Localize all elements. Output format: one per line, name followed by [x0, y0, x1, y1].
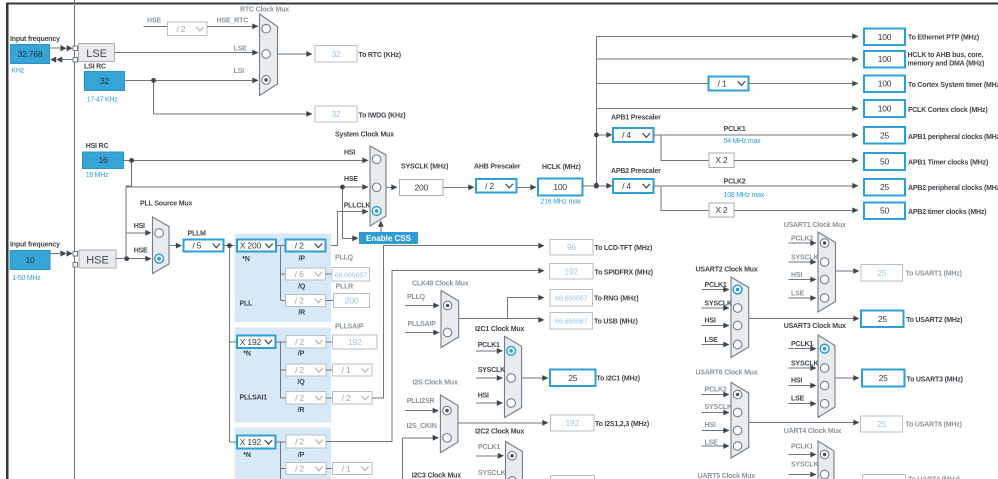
- svg-text:HSE_RTC: HSE_RTC: [217, 18, 249, 25]
- svg-text:USART3 Clock Mux: USART3 Clock Mux: [784, 323, 846, 330]
- svg-text:25: 25: [877, 419, 887, 429]
- svg-text:/ 6: / 6: [295, 269, 304, 279]
- svg-text:PCLK1: PCLK1: [478, 444, 500, 451]
- svg-text:HSE: HSE: [134, 248, 148, 255]
- svg-text:FCLK Cortex clock (MHz): FCLK Cortex clock (MHz): [908, 107, 987, 114]
- svg-text:/Q: /Q: [298, 284, 306, 291]
- svg-text:HSE: HSE: [344, 176, 358, 183]
- svg-text:PLLSAI1: PLLSAI1: [240, 395, 268, 402]
- svg-text:memory and DMA (MHz): memory and DMA (MHz): [908, 61, 985, 68]
- svg-text:PLL: PLL: [240, 301, 254, 308]
- svg-text:100: 100: [878, 79, 892, 89]
- svg-text:32: 32: [331, 109, 341, 119]
- svg-text:/ 2: / 2: [485, 181, 494, 191]
- svg-text:HSE: HSE: [86, 255, 109, 267]
- svg-text:To USART2 (MHz): To USART2 (MHz): [906, 317, 962, 324]
- svg-text:10: 10: [25, 255, 35, 265]
- svg-text:PLLQ: PLLQ: [335, 255, 354, 262]
- svg-text:HSI: HSI: [134, 223, 145, 230]
- svg-text:/ 2: / 2: [176, 24, 185, 34]
- svg-text:SYSCLK: SYSCLK: [791, 462, 818, 469]
- svg-text:HSI: HSI: [791, 272, 802, 279]
- svg-text:*N: *N: [243, 351, 251, 358]
- svg-text:KHz: KHz: [12, 68, 25, 75]
- svg-text:/R: /R: [298, 407, 305, 414]
- svg-text:LSE: LSE: [86, 48, 107, 60]
- svg-text:/P: /P: [298, 452, 305, 459]
- svg-text:/ 2: / 2: [295, 337, 304, 347]
- svg-text:To IWDG (KHz): To IWDG (KHz): [359, 112, 406, 119]
- svg-text:HSE: HSE: [147, 18, 161, 25]
- svg-text:SYSCLK (MHz): SYSCLK (MHz): [401, 164, 448, 171]
- svg-text:200: 200: [345, 296, 359, 306]
- svg-text:PLL Source Mux: PLL Source Mux: [140, 201, 192, 208]
- svg-text:Input frequency: Input frequency: [10, 36, 60, 43]
- svg-text:/ 2: / 2: [295, 241, 304, 251]
- svg-text:192: 192: [565, 418, 579, 428]
- svg-text:LSE: LSE: [791, 396, 805, 403]
- svg-text:To LCD-TFT (MHz): To LCD-TFT (MHz): [595, 245, 653, 252]
- svg-text:PCLK1: PCLK1: [791, 444, 813, 451]
- svg-text:HSI: HSI: [791, 378, 802, 385]
- svg-text:LSE: LSE: [791, 291, 805, 298]
- svg-text:100: 100: [878, 104, 892, 114]
- svg-text:100: 100: [553, 182, 567, 192]
- svg-text:66.666667: 66.666667: [555, 294, 587, 303]
- svg-text:To USB (MHz): To USB (MHz): [594, 318, 638, 325]
- svg-text:PLLSAIP: PLLSAIP: [408, 321, 437, 328]
- svg-text:LSE: LSE: [705, 440, 719, 447]
- svg-text:1-50 MHz: 1-50 MHz: [12, 275, 41, 282]
- svg-text:32.768: 32.768: [18, 49, 43, 59]
- svg-text:25: 25: [880, 130, 890, 140]
- svg-text:X 2: X 2: [715, 205, 728, 215]
- svg-text:APB2 timer clocks (MHz): APB2 timer clocks (MHz): [908, 209, 986, 216]
- svg-text:To Cortex System timer (MHz): To Cortex System timer (MHz): [908, 82, 998, 89]
- svg-text:/ 5: / 5: [192, 241, 201, 251]
- svg-text:PCLK1: PCLK1: [705, 282, 727, 289]
- svg-text:/P: /P: [299, 256, 306, 263]
- svg-text:HSI: HSI: [344, 150, 355, 157]
- svg-text:/ 4: / 4: [622, 181, 631, 191]
- svg-text:To USART3 (MHz): To USART3 (MHz): [907, 377, 963, 384]
- svg-text:200: 200: [414, 183, 428, 193]
- svg-text:APB1 Prescaler: APB1 Prescaler: [611, 114, 661, 121]
- svg-text:To RTC (KHz): To RTC (KHz): [359, 52, 401, 59]
- svg-text:/ 2: / 2: [295, 464, 304, 474]
- svg-text:*N: *N: [243, 452, 251, 459]
- svg-text:USART2 Clock Mux: USART2 Clock Mux: [696, 267, 758, 274]
- svg-text:/ 2: / 2: [295, 365, 304, 375]
- svg-text:SYSCLK: SYSCLK: [478, 367, 505, 374]
- svg-text:I2C1 Clock Mux: I2C1 Clock Mux: [475, 326, 525, 333]
- svg-text:To SPIDFRX (MHz): To SPIDFRX (MHz): [595, 270, 653, 277]
- svg-text:96: 96: [567, 242, 577, 252]
- svg-text:UART5 Clock Mux: UART5 Clock Mux: [698, 473, 756, 479]
- svg-text:PCLK1: PCLK1: [478, 342, 500, 349]
- svg-text:UART4 Clock Mux: UART4 Clock Mux: [784, 428, 842, 435]
- svg-text:PLLCLK: PLLCLK: [344, 203, 371, 210]
- svg-text:APB2 Prescaler: APB2 Prescaler: [611, 168, 661, 175]
- svg-text:25: 25: [568, 373, 578, 383]
- svg-text:SYSCLK: SYSCLK: [791, 255, 818, 262]
- svg-text:/ 2: / 2: [295, 437, 304, 447]
- svg-text:PLLM: PLLM: [188, 231, 207, 238]
- svg-text:PLLQ: PLLQ: [407, 294, 426, 301]
- svg-text:HSI: HSI: [705, 422, 716, 429]
- svg-text:LSI RC: LSI RC: [84, 64, 106, 71]
- svg-text:54 MHz max: 54 MHz max: [724, 138, 762, 145]
- svg-text:/ 1: / 1: [718, 78, 727, 88]
- svg-text:I2C3 Clock Mux: I2C3 Clock Mux: [412, 473, 462, 479]
- svg-text:To I2S1,2,3 (MHz): To I2S1,2,3 (MHz): [595, 421, 649, 428]
- svg-text:PCLK2: PCLK2: [705, 387, 727, 394]
- svg-text:To Ethernet PTP (MHz): To Ethernet PTP (MHz): [908, 35, 979, 42]
- svg-text:To I2C1 (MHz): To I2C1 (MHz): [597, 376, 640, 383]
- svg-text:HSI: HSI: [478, 393, 489, 400]
- svg-text:I2S_CKIN: I2S_CKIN: [407, 423, 437, 430]
- svg-text:CLK48 Clock Mux: CLK48 Clock Mux: [412, 281, 469, 288]
- svg-text:Enable CSS: Enable CSS: [366, 234, 412, 243]
- svg-text:16: 16: [98, 155, 108, 165]
- svg-text:APB1 peripheral clocks (MHz): APB1 peripheral clocks (MHz): [908, 134, 998, 141]
- svg-text:PLLI2SR: PLLI2SR: [407, 398, 435, 405]
- svg-text:/P: /P: [298, 351, 305, 358]
- svg-text:System Clock Mux: System Clock Mux: [335, 132, 394, 139]
- svg-text:PCLK1: PCLK1: [791, 341, 813, 348]
- svg-text:PCLK2: PCLK2: [724, 178, 746, 185]
- svg-text:I2S Clock Mux: I2S Clock Mux: [413, 380, 458, 387]
- svg-text:APB2 peripheral clocks (MHz): APB2 peripheral clocks (MHz): [908, 185, 998, 192]
- svg-text:HSI: HSI: [705, 318, 716, 325]
- svg-text:Input frequency: Input frequency: [10, 242, 60, 249]
- svg-text:PLLR: PLLR: [336, 284, 354, 291]
- svg-text:X 2: X 2: [715, 155, 728, 165]
- svg-text:USART1 Clock Mux: USART1 Clock Mux: [784, 222, 846, 229]
- svg-text:25: 25: [879, 373, 889, 383]
- svg-text:SYSCLK: SYSCLK: [705, 404, 732, 411]
- svg-text:PCLK1: PCLK1: [724, 126, 746, 133]
- svg-text:APB1 Timer clocks (MHz): APB1 Timer clocks (MHz): [908, 160, 988, 167]
- svg-text:/R: /R: [298, 310, 305, 317]
- svg-text:LSE: LSE: [705, 337, 719, 344]
- svg-text:100: 100: [878, 54, 892, 64]
- svg-text:/ 1: / 1: [342, 365, 351, 375]
- svg-text:25: 25: [878, 314, 888, 324]
- svg-text:192: 192: [564, 266, 578, 276]
- svg-text:*N: *N: [242, 256, 250, 263]
- svg-text:/ 2: / 2: [295, 393, 304, 403]
- svg-text:HCLK to AHB bus, core,: HCLK to AHB bus, core,: [908, 52, 984, 59]
- svg-text:To USART1 (MHz): To USART1 (MHz): [906, 271, 962, 278]
- svg-text:100: 100: [878, 32, 892, 42]
- svg-text:25: 25: [880, 182, 890, 192]
- svg-text:/ 2: / 2: [295, 296, 304, 306]
- svg-text:SYSCLK: SYSCLK: [705, 301, 732, 308]
- svg-text:/ 4: / 4: [622, 130, 631, 140]
- svg-text:/ 1: / 1: [342, 464, 351, 474]
- svg-text:17-47 KHz: 17-47 KHz: [87, 97, 119, 104]
- svg-text:I2C2 Clock Mux: I2C2 Clock Mux: [475, 429, 525, 436]
- svg-text:RTC Clock Mux: RTC Clock Mux: [240, 7, 289, 14]
- svg-text:25: 25: [877, 268, 887, 278]
- svg-text:/Q: /Q: [297, 379, 305, 386]
- svg-text:HSI RC: HSI RC: [86, 143, 109, 150]
- svg-text:50: 50: [880, 206, 890, 216]
- svg-text:X 200: X 200: [240, 241, 262, 251]
- svg-text:PLLSAIP: PLLSAIP: [335, 324, 364, 331]
- svg-text:USART6 Clock Mux: USART6 Clock Mux: [696, 370, 758, 377]
- svg-text:32: 32: [100, 76, 110, 86]
- svg-text:50: 50: [880, 157, 890, 167]
- svg-text:66.666667: 66.666667: [555, 317, 587, 326]
- svg-text:108 MHz max: 108 MHz max: [724, 192, 765, 199]
- svg-text:LSE: LSE: [234, 45, 248, 52]
- svg-text:216 MHz max: 216 MHz max: [541, 199, 582, 206]
- svg-text:66.666667: 66.666667: [335, 270, 367, 279]
- svg-text:192: 192: [348, 337, 362, 347]
- svg-text:X 192: X 192: [240, 437, 262, 447]
- svg-text:To USART6 (MHz): To USART6 (MHz): [906, 422, 962, 429]
- svg-text:X 192: X 192: [240, 337, 262, 347]
- svg-text:HCLK (MHz): HCLK (MHz): [542, 164, 581, 171]
- svg-text:SYSCLK: SYSCLK: [791, 361, 818, 368]
- svg-text:To RNG (MHz): To RNG (MHz): [594, 295, 638, 302]
- svg-text:32: 32: [331, 49, 341, 59]
- svg-text:AHB Prescaler: AHB Prescaler: [474, 164, 521, 171]
- svg-text:SYSCLK: SYSCLK: [478, 470, 505, 477]
- svg-text:16 MHz: 16 MHz: [86, 172, 109, 179]
- svg-text:/ 2: / 2: [342, 393, 351, 403]
- svg-text:LSI: LSI: [234, 68, 245, 75]
- svg-text:PCLK2: PCLK2: [791, 236, 813, 243]
